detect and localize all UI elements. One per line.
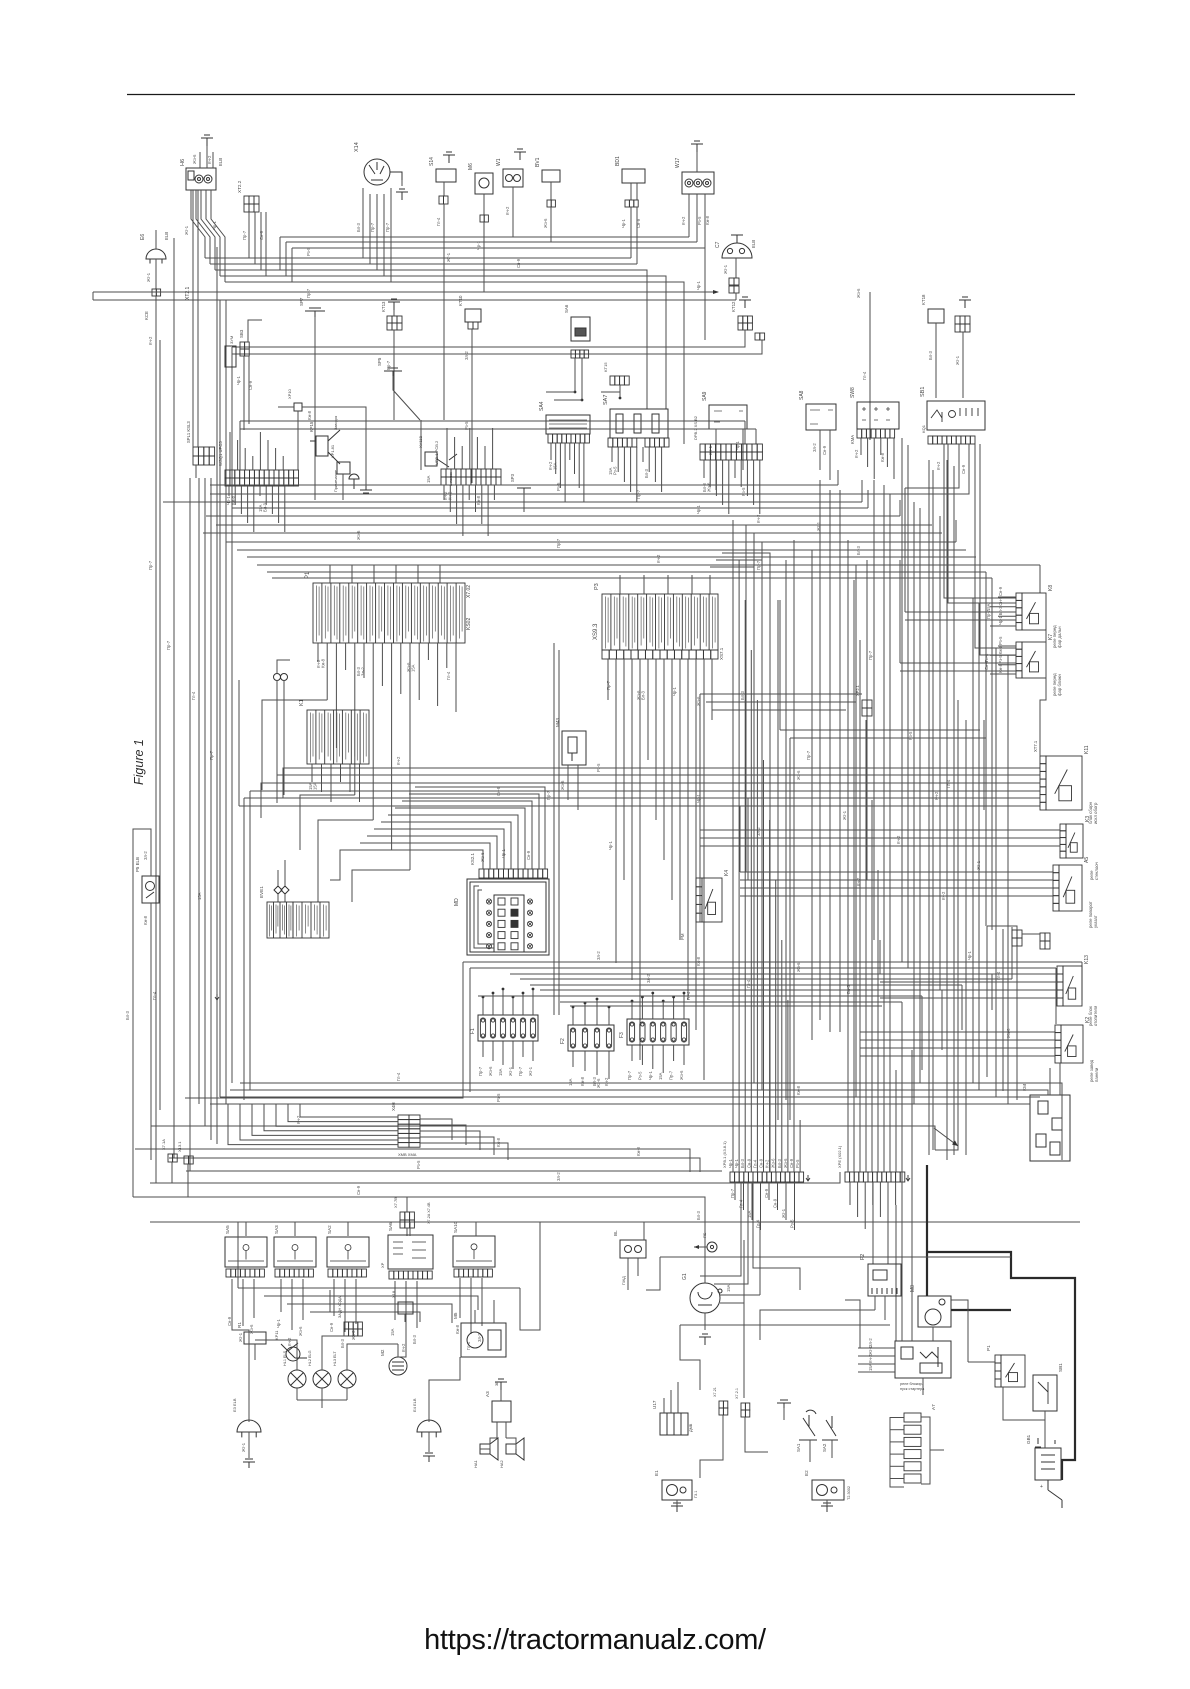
wire [944,444,1016,598]
horn M2 [389,1357,407,1375]
left bus wire [173,238,175,1158]
svg-text:Жг-1: Жг-1 [184,225,189,235]
wire above fuse [673,997,675,1019]
svg-text:15А: 15А [553,462,558,470]
wire [879,940,881,974]
left bus wire from E6 [156,296,190,1183]
wire [228,486,230,496]
svg-text:Чр-1: Чр-1 [672,686,677,696]
svg-text:HA1: HA1 [473,1459,478,1468]
svg-text:Кч-2: Кч-2 [936,461,941,470]
wire [239,421,241,470]
wire [890,1429,904,1431]
wire [811,550,813,1040]
svg-text:Рз-5: Рз-5 [306,247,311,256]
svg-text:Рз-5: Рз-5 [637,1071,642,1080]
wire [694,1246,707,1248]
wire [340,764,342,782]
wire [247,556,976,558]
wire [581,358,583,400]
wire [941,990,943,1050]
wire [872,1182,874,1205]
svg-text:Жз-6: Жз-6 [192,154,197,164]
svg-text:Бл-3: Бл-3 [777,1158,782,1168]
wire [252,456,254,470]
svg-text:SA6: SA6 [564,304,569,313]
svg-text:Пр-7: Пр-7 [556,538,561,548]
wire [753,460,755,505]
svg-text:Сн-9: Сн-9 [496,786,501,796]
svg-text:Бл-3: Бл-3 [740,1158,745,1168]
wire [226,541,956,543]
wire [631,659,633,980]
svg-text:XS9.3: XS9.3 [593,623,599,640]
svg-text:SB3: SB3 [239,329,244,338]
connector strip [240,342,249,349]
connector W17 [682,172,714,194]
wire [506,1438,516,1449]
motor M5 fan [461,1323,506,1357]
wire [199,152,201,168]
svg-text:E1: E1 [654,1470,659,1476]
wire below lamp [296,1388,298,1400]
connector strip [862,708,872,716]
svg-text:Сн-9: Сн-9 [822,445,827,455]
wire [275,448,277,470]
connector strip [409,1115,420,1147]
wire [234,486,236,505]
relay K8 [1016,593,1046,630]
wire [779,600,781,730]
wire [369,194,371,200]
wire above fuse [683,993,685,1019]
svg-text:Гл-4: Гл-4 [466,1341,471,1350]
svg-text:Гл-4: Гл-4 [446,671,451,680]
svg-text:A7: A7 [931,1404,936,1410]
wire [1040,630,1046,756]
wire [601,385,620,392]
svg-text:Пр-7: Пр-7 [730,1188,735,1198]
svg-text:HL1 ELS: HL1 ELS [283,1350,287,1366]
svg-text:Рз-5: Рз-5 [613,466,618,475]
wire [873,438,875,479]
svg-text:UPB.1 PCB.2: UPB.1 PCB.2 [434,440,439,465]
wire [93,299,736,301]
svg-text:Рз-5: Рз-5 [697,216,702,225]
wire [927,1252,1075,1480]
svg-text:ПБ: ПБ [702,1232,707,1238]
connector [547,200,555,207]
wire [831,1440,833,1458]
sensor BL [620,1240,646,1258]
wire [965,720,967,1155]
svg-text:XV11B: XV11B [418,436,423,448]
svg-text:EVE1: EVE1 [259,886,264,898]
wire [329,1290,331,1312]
wire [716,560,762,600]
svg-text:15А: 15А [868,1363,873,1371]
ground SP3 [517,485,531,493]
svg-text:Заводск: Заводск [334,415,338,430]
wire [212,152,214,168]
wire [383,200,385,276]
svg-text:XP: XP [380,1262,385,1268]
wire [643,1222,645,1240]
svg-text:Кч-2: Кч-2 [448,491,453,500]
connector strip [700,444,762,452]
wire [780,729,980,731]
wire [1044,1411,1046,1420]
wire [280,236,689,238]
wire [1039,565,1041,593]
wire [859,990,861,1032]
speaker HA2 [506,1438,524,1460]
svg-text:Чр-1: Чр-1 [735,440,740,450]
svg-text:Кч-2: Кч-2 [756,514,761,523]
wire [742,429,744,470]
svg-text:Пр-7: Пр-7 [242,230,247,240]
wire [381,643,383,686]
wire to bus [512,187,514,237]
wire [643,575,645,594]
wire [751,1182,753,1220]
fuse block F1 [478,1015,538,1041]
connector strip [225,478,299,486]
wire to K8 [998,596,1016,598]
motor M6 [475,173,493,194]
wire [302,407,366,486]
wire [195,465,197,478]
relay K3 [1060,824,1083,858]
long wire [558,650,560,1015]
wire [264,1296,478,1310]
wire [574,358,576,392]
wire to K7 [900,670,1016,672]
wire [1022,933,1040,935]
relay start-block [895,1341,951,1378]
wire [961,985,963,1030]
wire [890,1441,904,1443]
svg-text:Пр-7: Пр-7 [627,1070,632,1080]
wire [975,444,1016,648]
svg-text:KT10: KT10 [458,295,463,306]
pins SA2 [328,1269,366,1277]
wire [660,1256,1011,1258]
wire [680,1324,890,1326]
svg-text:Гл-4: Гл-4 [686,991,691,1000]
wire [478,995,922,997]
wire to K13 [880,989,1057,991]
connector strip [344,1329,362,1336]
wire [744,600,746,1172]
svg-text:Кж-8: Кж-8 [696,956,701,966]
wire [342,474,344,500]
wire [133,1197,705,1240]
wire [191,190,205,258]
wire [402,801,532,869]
wire [987,926,1017,930]
wire [753,1182,800,1290]
svg-text:SA3: SA3 [274,1225,279,1234]
wire [185,962,463,1098]
wire [783,1408,785,1420]
wire [487,485,489,536]
svg-text:Кж-8: Кж-8 [321,658,326,668]
connector strip [738,316,752,323]
glow plug [904,1462,921,1471]
wire [901,1090,903,1341]
connector strip [193,456,215,465]
svg-text:Бл-3: Бл-3 [412,1334,417,1344]
svg-text:Сн-9: Сн-9 [636,218,641,228]
wire [968,1361,995,1363]
wire [229,432,231,470]
connector strip [244,204,259,212]
svg-text:Жг-1: Жг-1 [508,1066,513,1076]
wire [1011,927,1013,979]
left bus wire [225,300,227,1104]
wire [869,292,871,440]
fuse element [530,1018,535,1038]
wire [867,438,869,467]
wire to A5 [740,879,1053,881]
wire [951,1300,968,1362]
starter M8 [918,1296,951,1327]
svg-text:Чр-1: Чр-1 [236,375,241,385]
svg-text:SW8: SW8 [850,387,856,398]
wire [715,429,717,490]
svg-text:M5: M5 [453,1312,458,1319]
ground X14 [396,189,408,200]
wire [756,700,758,1172]
block P3 cells [602,594,718,650]
relay K11 [1040,756,1082,810]
wire [417,565,419,583]
wire [475,1222,477,1236]
lamp unit E1 [662,1480,692,1500]
ground above SB10 [959,297,971,308]
svg-text:Сн-9: Сн-9 [356,1185,361,1195]
wire above E6 [155,230,157,249]
wire [265,486,267,505]
wire [420,1137,494,1155]
svg-text:G1: G1 [682,1273,688,1280]
wire [709,575,711,594]
svg-text:Зл-2: Зл-2 [143,851,148,860]
wire [237,1222,239,1288]
wire [857,1182,859,1217]
svg-text:Зл-2: Зл-2 [464,351,469,360]
wire [755,429,757,444]
fuse element [480,1018,485,1038]
wire [255,1340,297,1356]
wire [210,484,838,486]
wire [985,572,987,926]
wire [238,680,240,773]
wire below fuse [492,1041,494,1061]
wire [253,486,255,532]
wire to K2 [860,1031,1055,1033]
wire [247,486,249,523]
svg-text:X7.1A: X7.1A [161,1139,166,1150]
wire [405,1281,407,1336]
left bus wire [210,478,212,1140]
wire [318,820,373,902]
wire [785,1182,787,1220]
wire [972,598,974,1083]
wire [744,421,746,444]
svg-text:Жз-6: Жз-6 [707,482,712,492]
wire [196,190,210,264]
wire [732,520,734,1172]
wire above fuse [492,993,494,1015]
wire [278,486,280,523]
connector KT10 [465,309,481,322]
svg-text:ЗВ: ЗВ [495,1381,499,1386]
wire [745,525,747,872]
ground above KT12 [739,297,751,308]
wire [946,460,948,1160]
wire [373,565,375,583]
svg-text:Гл-4: Гл-4 [862,371,867,380]
svg-text:H6: H6 [180,159,186,166]
svg-text:Кж-8: Кж-8 [231,495,236,505]
connector strip [1012,938,1022,946]
svg-text:фар ближн: фар ближн [1057,673,1062,696]
wire [239,428,241,430]
connector strip [729,286,739,293]
svg-text:Сн-9: Сн-9 [759,1158,764,1168]
wire [879,1182,881,1217]
wire [895,1070,897,1172]
wire [483,194,485,215]
wire [329,565,331,583]
wire to K7 [998,664,1016,666]
wire [735,293,737,300]
svg-text:Сн-9: Сн-9 [789,1158,794,1168]
wire [574,443,576,474]
wire [415,787,545,869]
svg-text:Бл-3: Бл-3 [696,1210,701,1220]
svg-text:Бл-3: Бл-3 [740,690,745,700]
wire [155,259,157,289]
svg-text:SA10: SA10 [453,1221,458,1233]
left bus wire [198,478,200,1104]
diode XV11B [425,452,457,467]
wire [734,460,736,478]
svg-text:SA9: SA9 [702,391,708,401]
wire [420,1143,508,1160]
long wire [907,445,909,968]
wire from SP7 [314,317,316,500]
fuse element [520,1018,525,1038]
connector strip [738,323,752,330]
svg-text:Жг-1: Жг-1 [723,264,728,274]
svg-text:15А: 15А [390,1328,395,1336]
wire [277,660,290,673]
wire [225,282,684,444]
wire [203,532,942,534]
wire [671,659,673,900]
svg-text:SP3: SP3 [510,473,515,482]
ground above KT13 [388,299,400,310]
svg-text:P1: P1 [986,1345,991,1351]
wire [409,794,539,869]
svg-text:K13: K13 [1084,955,1090,964]
wire [302,1279,304,1320]
wire above fuse [522,993,524,1015]
wire [311,764,313,782]
wire [232,507,868,509]
wire [459,1278,461,1318]
wire [283,768,1040,798]
wire [884,1296,886,1320]
wire [216,524,932,526]
wire [849,1182,851,1205]
svg-text:X7.02: X7.02 [466,585,472,598]
wire [390,188,392,200]
wire [769,820,771,1172]
wire [847,540,849,1172]
svg-text:XT7.1: XT7.1 [1033,740,1038,752]
ground below E3 [243,1459,255,1468]
svg-text:Рз-5: Рз-5 [790,1219,795,1228]
wire below fuse [584,1051,586,1071]
wire [286,241,697,243]
fuse element [582,1028,587,1048]
svg-text:P5 ELB: P5 ELB [135,857,140,872]
wire [398,1336,406,1357]
svg-text:Гл-4: Гл-4 [996,971,1001,980]
wire [781,940,783,1172]
wire above fuse [662,1001,664,1019]
wire [92,292,94,300]
wire [478,890,494,944]
wire [760,1182,762,1230]
svg-text:KT15: KT15 [603,362,608,372]
wire [734,1182,736,1200]
svg-text:Гл-4: Гл-4 [152,991,157,1000]
svg-text:K2: K2 [1085,1017,1091,1023]
wire [555,443,557,474]
block P1 cells [313,583,465,643]
svg-text:Кч-2: Кч-2 [207,155,212,164]
wire [874,1296,876,1310]
connector [480,215,488,222]
wire [267,440,269,470]
switch SA8 [806,404,836,430]
wire [759,460,761,514]
svg-text:Жг-1: Жг-1 [868,1345,873,1355]
wire [712,709,846,711]
connector X18 [398,1302,413,1314]
wire [880,438,882,455]
wire [619,385,621,398]
svg-text:искл обогр: искл обогр [1093,802,1098,824]
wire [826,1500,828,1506]
connector strip [955,316,970,324]
ground SP9 [777,1400,791,1408]
svg-text:Кч-2: Кч-2 [868,1354,873,1363]
connector strip [1040,933,1050,941]
wire [344,1279,346,1332]
wire [696,194,698,242]
svg-text:X7.2.1: X7.2.1 [735,1388,739,1399]
wire [394,1281,396,1320]
svg-text:BV1: BV1 [535,157,541,167]
ground SP1g [360,486,372,493]
wire above E3 [248,1404,250,1422]
